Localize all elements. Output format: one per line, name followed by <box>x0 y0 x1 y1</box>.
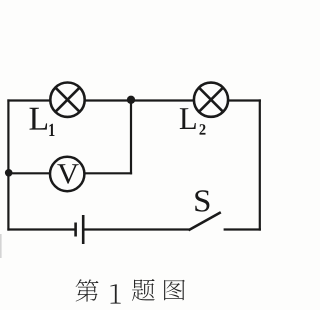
wire top middle (junction to L2) <box>131 99 193 101</box>
label L2 <box>180 108 206 134</box>
caption character 图 <box>164 280 185 301</box>
switch S lever <box>189 212 221 230</box>
wire junction drop <box>130 100 132 175</box>
lamp L1 <box>50 83 84 117</box>
node junction left <box>5 169 13 177</box>
caption digit 1 <box>110 284 120 303</box>
wire voltmeter right <box>84 172 132 174</box>
node junction top <box>127 96 135 104</box>
wire right side <box>259 99 261 230</box>
label S <box>195 190 209 211</box>
label L1 <box>30 108 55 136</box>
wire top right (L2 to right corner) <box>228 99 261 101</box>
voltmeter V <box>50 157 84 191</box>
lamp L2 <box>194 83 228 117</box>
wire left side <box>7 99 9 230</box>
wire bottom left <box>7 228 75 230</box>
wire top middle (L1 to junction) <box>85 99 131 101</box>
battery positive plate (long) <box>82 215 85 244</box>
wire voltmeter left <box>8 172 50 174</box>
caption character 题 <box>132 279 155 301</box>
battery negative plate (short) <box>74 223 77 237</box>
scan artifact left edge <box>0 234 2 258</box>
wire bottom right (switch contact to right corner) <box>224 228 261 230</box>
caption character 第 <box>76 279 99 301</box>
wire bottom middle (battery to switch) <box>83 228 189 230</box>
wire top left (left corner to lamp L1) <box>7 99 50 101</box>
